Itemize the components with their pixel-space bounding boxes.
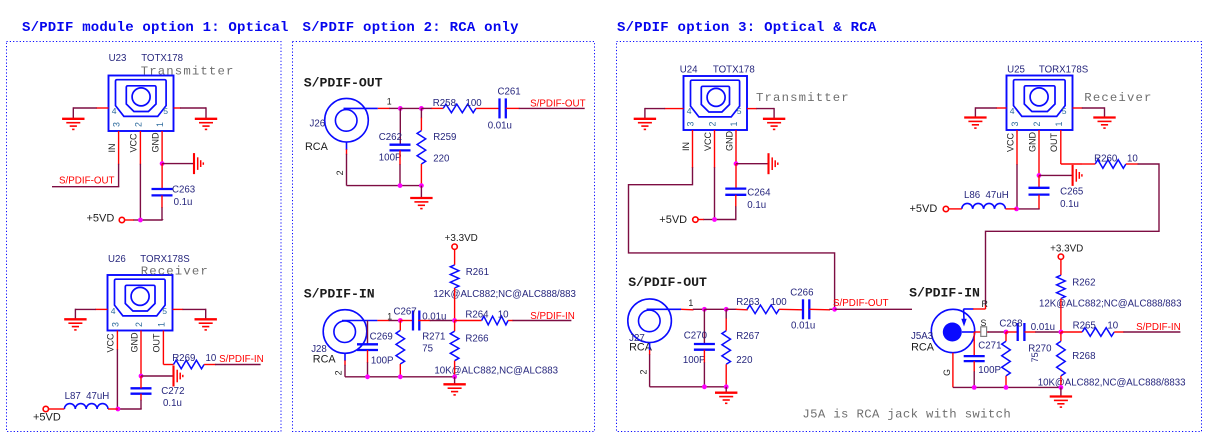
svg-text:+5VD: +5VD <box>910 203 938 215</box>
wire R267 node to R263 <box>726 308 736 310</box>
wire U26 pin5 to right ground <box>173 308 184 310</box>
svg-text:4: 4 <box>687 106 692 116</box>
wire C262 drop <box>399 108 401 144</box>
svg-text:10: 10 <box>206 353 217 364</box>
svg-text:3: 3 <box>112 122 122 127</box>
svg-text:TORX178S: TORX178S <box>140 254 190 265</box>
wire R270 drop <box>1005 332 1007 341</box>
junction R270 node <box>1004 330 1009 335</box>
svg-text:S/PDIF option 3: Optical & RCA: S/PDIF option 3: Optical & RCA <box>617 20 877 36</box>
panel border option 1 <box>7 42 282 432</box>
J28 tip wire <box>342 320 377 322</box>
ground left of U26 <box>64 318 86 320</box>
capacitor C269 <box>357 343 378 345</box>
svg-text:R271: R271 <box>422 332 445 343</box>
J5A G pin wire <box>952 353 954 388</box>
wire +5VD to L86 <box>949 208 962 210</box>
wire C270 to ground rail <box>703 350 705 363</box>
svg-text:Receiver: Receiver <box>141 264 209 278</box>
svg-text:75: 75 <box>1030 352 1040 362</box>
wire R260 long run to J5A R pin <box>1126 163 1138 165</box>
svg-text:RCA: RCA <box>313 354 337 366</box>
wire +3.3VD to R262 <box>1060 259 1062 275</box>
svg-text:5: 5 <box>163 106 168 116</box>
capacitor C261 <box>498 98 500 118</box>
wire U26 VCC pin down <box>116 331 118 351</box>
junction R262 R268 node <box>1059 330 1064 335</box>
junction C270 ground <box>702 384 707 389</box>
wire C269 to ground rail <box>367 350 369 363</box>
svg-text:VCC: VCC <box>106 333 116 353</box>
wire U24 IN pin down and around <box>692 130 694 168</box>
svg-text:TOTX178: TOTX178 <box>713 65 755 76</box>
junction R270 ground <box>1004 385 1009 390</box>
J5A switch arrow <box>963 309 965 320</box>
svg-text:100: 100 <box>771 297 788 308</box>
wire U24 pin4 to left ground <box>664 108 683 110</box>
ground rail panel2 bottom <box>345 376 455 378</box>
svg-text:C262: C262 <box>379 132 402 143</box>
svg-text:1: 1 <box>156 322 166 327</box>
wire R258 to C261 <box>476 107 500 109</box>
svg-text:R: R <box>982 299 988 309</box>
svg-text:U25: U25 <box>1007 65 1025 76</box>
svg-text:0.1u: 0.1u <box>174 197 193 208</box>
wire GND node to chassis U25 <box>1039 174 1073 176</box>
wire C268 to R262 node <box>1024 331 1036 333</box>
wire L86 to junction <box>1005 208 1016 210</box>
ground rail panel3 out <box>650 386 727 388</box>
svg-text:5: 5 <box>162 306 167 316</box>
svg-text:+5VD: +5VD <box>87 213 115 225</box>
svg-text:GND: GND <box>1027 132 1037 153</box>
capacitor C265 <box>1029 187 1050 189</box>
capacitor C266 <box>802 299 804 319</box>
svg-text:4: 4 <box>1010 106 1015 116</box>
svg-text:R264: R264 <box>465 310 489 321</box>
J28 shell wire <box>344 353 346 361</box>
junction U24 GND node <box>734 161 739 166</box>
svg-text:S/PDIF-IN: S/PDIF-IN <box>909 286 980 301</box>
svg-text:TOTX178: TOTX178 <box>141 53 183 64</box>
wire R259 node to R258 <box>421 107 432 109</box>
chassis ground U23 <box>193 153 195 174</box>
wire U24 GND pin down <box>735 130 737 164</box>
svg-text:L86 47uH: L86 47uH <box>964 190 1009 201</box>
svg-text:S/PDIF-OUT: S/PDIF-OUT <box>833 298 889 309</box>
wire +5VD rail U25 <box>1017 208 1040 210</box>
ground panel3 out <box>715 392 737 394</box>
resistor R258 <box>443 104 476 113</box>
wire R266 drop <box>454 321 456 332</box>
junction R266 ground <box>452 374 457 379</box>
J27 shell wire <box>649 343 651 351</box>
junction VCC +5VD panel1 <box>138 218 143 223</box>
wire U24 pin5 to right ground <box>747 108 757 110</box>
svg-text:C267: C267 <box>394 307 417 318</box>
wire U23 pin4 to left ground <box>96 107 109 109</box>
svg-text:C271: C271 <box>978 341 1001 352</box>
wire +5VD rail U24 <box>715 219 737 221</box>
resistor R264 <box>482 316 509 325</box>
svg-text:S/PDIF-OUT: S/PDIF-OUT <box>530 98 586 109</box>
svg-text:5: 5 <box>737 106 742 116</box>
wire C267 to R261 node <box>418 320 430 322</box>
wire R263 to C266 <box>779 308 803 311</box>
chassis ground U24 <box>767 153 769 174</box>
svg-text:R266: R266 <box>465 333 488 344</box>
svg-text:G: G <box>942 369 952 376</box>
svg-text:S/PDIF-IN: S/PDIF-IN <box>304 287 375 302</box>
svg-text:1: 1 <box>1054 122 1064 127</box>
svg-text:C264: C264 <box>747 188 771 199</box>
RCA jack J5A with switch <box>931 309 974 352</box>
+5VD pin U24 <box>693 217 698 222</box>
ground left of U24 <box>634 118 656 120</box>
wire GND node to C265 <box>1038 175 1040 187</box>
svg-text:10: 10 <box>1107 320 1118 331</box>
capacitor C262 <box>390 144 411 146</box>
wire C265 to +5VD rail <box>1038 195 1040 209</box>
wire L87 to junction <box>108 408 118 410</box>
svg-text:OUT: OUT <box>152 333 162 353</box>
wire node to R265 <box>1061 331 1082 333</box>
svg-text:C268: C268 <box>999 318 1022 329</box>
svg-text:GND: GND <box>724 131 734 152</box>
svg-text:S/PDIF-OUT: S/PDIF-OUT <box>304 76 383 91</box>
svg-text:Transmitter: Transmitter <box>756 91 850 105</box>
wire U26 OUT pin down <box>162 331 164 365</box>
svg-text:S/PDIF module option 1: Optica: S/PDIF module option 1: Optical <box>22 20 289 36</box>
resistor R266 <box>450 331 459 361</box>
wire C270 drop <box>703 309 705 344</box>
wire C266 to junction <box>809 308 830 311</box>
svg-text:0.1u: 0.1u <box>747 200 766 211</box>
capacitor C264 <box>725 187 746 189</box>
svg-text:+5VD: +5VD <box>659 214 687 226</box>
junction R259 node <box>419 106 424 111</box>
svg-text:R262: R262 <box>1072 277 1095 288</box>
wire U23 pin5 to right ground <box>174 107 181 109</box>
wire U25 OUT pin down <box>1060 130 1062 164</box>
svg-text:3: 3 <box>110 322 120 327</box>
wire U25 pin5 to right ground <box>1073 107 1083 109</box>
svg-text:+3.3VD: +3.3VD <box>445 233 478 244</box>
svg-text:0.1u: 0.1u <box>1060 199 1079 210</box>
svg-text:C272: C272 <box>161 386 184 397</box>
svg-text:10: 10 <box>1127 153 1138 164</box>
svg-text:2: 2 <box>708 122 718 127</box>
svg-text:5: 5 <box>1062 106 1067 116</box>
wire +5VD to L87 <box>49 408 65 410</box>
ground right of U26 <box>195 318 217 320</box>
inductor L86 <box>962 203 1006 208</box>
junction C270 node <box>702 307 707 312</box>
wire to earth panel2 bottom <box>454 377 456 385</box>
wire GND node to C263 <box>161 164 163 189</box>
svg-text:U23: U23 <box>109 53 127 64</box>
svg-text:R267: R267 <box>736 331 759 342</box>
J26 tip wire <box>344 107 378 109</box>
wire U25 GND pin down <box>1038 130 1040 175</box>
resistor R262 <box>1057 275 1066 298</box>
ground right of U23 <box>195 118 217 120</box>
svg-text:10K@ALC882,NC@ALC883: 10K@ALC882,NC@ALC883 <box>434 366 558 377</box>
J5A tip wire <box>962 331 975 333</box>
svg-text:C261: C261 <box>498 87 521 98</box>
wire node to C267 <box>400 320 413 322</box>
resistor R260 <box>1095 160 1126 169</box>
svg-text:220: 220 <box>736 355 753 366</box>
svg-text:VCC: VCC <box>1005 132 1015 152</box>
wire C264 to +5VD rail <box>735 195 737 207</box>
wire R264 to S/PDIF-IN <box>508 320 513 322</box>
ground right of U25 <box>1093 116 1115 118</box>
junction R267 node <box>724 307 729 312</box>
svg-text:100P: 100P <box>371 356 394 367</box>
wire R266 to ground rail <box>454 361 456 377</box>
wire GND node to chassis ground panel1 bottom <box>141 375 174 377</box>
svg-text:R258: R258 <box>433 98 456 109</box>
svg-text:Transmitter: Transmitter <box>141 65 235 79</box>
svg-text:R269: R269 <box>172 353 195 364</box>
svg-text:10: 10 <box>498 310 509 321</box>
wire R269 to S/PDIF-IN <box>204 364 216 366</box>
svg-text:+5VD: +5VD <box>33 412 61 424</box>
svg-text:R265: R265 <box>1073 320 1096 331</box>
wire C269 drop <box>367 321 369 345</box>
wire to earth panel3 out <box>725 387 727 393</box>
wire S/PDIF-OUT net panel3 <box>835 308 912 310</box>
ground panel3 in <box>1050 395 1072 397</box>
J27 tip wire <box>647 308 681 310</box>
wire GND node to C272 <box>140 376 142 388</box>
svg-text:3: 3 <box>1010 122 1020 127</box>
capacitor C272 <box>131 387 152 389</box>
svg-text:R261: R261 <box>466 267 489 278</box>
svg-text:L87 47uH: L87 47uH <box>65 391 110 402</box>
wire GND node to chassis ground <box>162 163 194 165</box>
resistor R267 <box>722 331 731 365</box>
wire to earth panel3 in <box>1060 387 1062 396</box>
junction S/PDIF-OUT node panel3 <box>832 307 837 312</box>
wire to earth panel2 top <box>420 186 422 198</box>
panel border option 3 <box>617 42 1202 432</box>
J5A switch arm wire <box>963 308 973 310</box>
resistor R261 <box>450 265 459 288</box>
wire R270 to ground rail <box>1005 376 1007 388</box>
svg-text:220: 220 <box>433 153 450 164</box>
svg-text:C263: C263 <box>172 185 195 196</box>
wire R271 to ground rail <box>399 364 401 377</box>
wire C263 to +5VD rail <box>161 195 163 208</box>
svg-text:S/PDIF-IN: S/PDIF-IN <box>530 311 575 322</box>
wire U25 VCC pin down <box>1016 130 1018 165</box>
junction L87 VCC +5VD <box>116 407 121 412</box>
svg-text:0.1u: 0.1u <box>163 398 182 409</box>
wire R268 to ground rail <box>1060 376 1062 388</box>
resistor R265 <box>1082 328 1114 337</box>
resistor R270 <box>1002 341 1011 376</box>
svg-text:1: 1 <box>688 298 693 308</box>
svg-text:OUT: OUT <box>1049 133 1059 153</box>
junction L86 VCC <box>1014 207 1019 212</box>
svg-text:3: 3 <box>686 122 696 127</box>
svg-text:R268: R268 <box>1072 351 1095 362</box>
svg-text:0.01u: 0.01u <box>488 121 512 132</box>
optical receiver U26 <box>108 275 173 331</box>
ground right of U24 <box>763 118 785 120</box>
junction R261 R266 node <box>452 318 457 323</box>
svg-text:Receiver: Receiver <box>1084 91 1152 105</box>
svg-text:+3.3VD: +3.3VD <box>1050 243 1083 254</box>
wire GND node to chassis U24 <box>736 163 769 165</box>
svg-text:2: 2 <box>133 122 143 127</box>
svg-text:1: 1 <box>729 122 739 127</box>
wire R259 to ground rail <box>420 164 422 186</box>
junction R268 ground <box>1059 385 1064 390</box>
ground left of U25 <box>964 116 986 118</box>
svg-text:GND: GND <box>150 132 160 153</box>
svg-text:U24: U24 <box>680 65 698 76</box>
svg-text:100P: 100P <box>379 152 402 163</box>
svg-text:2: 2 <box>1032 122 1042 127</box>
optical receiver U25 <box>1007 76 1073 131</box>
resistor R271 <box>396 330 405 364</box>
svg-text:2: 2 <box>134 322 144 327</box>
junction C271 ground <box>972 385 977 390</box>
svg-text:S/PDIF-IN: S/PDIF-IN <box>219 354 264 365</box>
RCA jack J28 <box>323 310 367 354</box>
svg-text:1: 1 <box>387 311 392 321</box>
svg-text:S/PDIF-OUT: S/PDIF-OUT <box>628 275 707 290</box>
svg-text:S/PDIF-IN: S/PDIF-IN <box>1136 322 1181 333</box>
wire R259 drop <box>420 108 422 118</box>
junction U25 GND node <box>1037 173 1042 178</box>
RCA jack J27 <box>628 299 672 343</box>
svg-text:100P: 100P <box>683 355 706 366</box>
wire GND node to C264 <box>735 164 737 189</box>
wire R271 drop <box>399 321 401 331</box>
svg-text:IN: IN <box>107 144 117 153</box>
svg-text:C270: C270 <box>684 331 708 342</box>
svg-text:TORX178S: TORX178S <box>1039 65 1089 76</box>
J28 pin 1 wire <box>377 320 389 322</box>
svg-text:U26: U26 <box>108 254 126 265</box>
resistor R268 <box>1057 341 1066 376</box>
svg-text:C269: C269 <box>370 332 393 343</box>
ground left of U23 <box>62 118 84 120</box>
svg-text:VCC: VCC <box>703 131 713 151</box>
wire U24 VCC pin down <box>714 130 716 168</box>
wire +3.3VD to R261 <box>454 249 456 265</box>
wire R265 to S/PDIF-IN <box>1114 331 1124 333</box>
wire C261 to S/PDIF-OUT <box>506 107 520 109</box>
wire U23 GND pin down <box>161 131 163 164</box>
svg-text:RCA: RCA <box>305 141 329 153</box>
J26 pin 1 wire <box>378 107 390 109</box>
J5A S pin wire <box>975 331 989 333</box>
svg-text:4: 4 <box>111 306 116 316</box>
svg-text:1: 1 <box>155 122 165 127</box>
svg-text:GND: GND <box>129 332 139 353</box>
capacitor C263 <box>152 188 173 190</box>
svg-text:100: 100 <box>466 98 483 109</box>
svg-text:1: 1 <box>387 97 392 107</box>
capacitor C267 <box>412 311 414 331</box>
wire U23 IN pin down <box>118 131 120 165</box>
ground panel2 top <box>410 197 432 199</box>
junction R259 ground <box>419 183 424 188</box>
wire R267 drop <box>725 309 727 319</box>
wire C271 to ground rail <box>973 361 975 372</box>
resistor R259 <box>417 131 426 164</box>
junction R267 ground <box>724 384 729 389</box>
wire node to R264 <box>455 320 482 322</box>
svg-text:J26: J26 <box>310 118 326 129</box>
+5VD pin panel1 top <box>119 217 124 222</box>
panel border option 2 <box>293 42 595 432</box>
svg-text:4: 4 <box>112 106 117 116</box>
capacitor C268 <box>1017 323 1019 341</box>
capacitor C270 <box>694 343 715 345</box>
svg-text:2: 2 <box>638 370 648 375</box>
wire U26 GND pin down <box>140 331 142 377</box>
chassis ground U26 <box>172 366 174 387</box>
J5A R pin wire <box>985 305 987 309</box>
wire S/PDIF-OUT net panel1 <box>52 186 119 188</box>
svg-text:S/PDIF-OUT: S/PDIF-OUT <box>59 176 115 187</box>
svg-text:VCC: VCC <box>129 133 139 153</box>
resistor R269 <box>174 360 205 369</box>
svg-text:RCA: RCA <box>911 341 935 353</box>
junction C269 ground <box>365 374 370 379</box>
svg-text:100P: 100P <box>978 365 1001 376</box>
J5A switch contact square <box>981 327 987 337</box>
wire U26 pin4 to left ground <box>95 308 107 310</box>
svg-text:R263: R263 <box>736 297 759 308</box>
wire to R259 node <box>400 107 421 109</box>
wire R262 to line <box>1060 299 1062 333</box>
svg-text:J5A is RCA jack with switch: J5A is RCA jack with switch <box>802 407 1011 421</box>
svg-text:0.01u: 0.01u <box>791 321 815 332</box>
+5VD pin U25 <box>943 206 948 211</box>
wire U23 VCC pin down <box>139 131 141 165</box>
svg-text:IN: IN <box>681 142 691 151</box>
svg-text:75: 75 <box>422 344 433 355</box>
svg-text:C266: C266 <box>790 288 813 299</box>
ground panel2 bottom <box>443 383 465 385</box>
wire C271 drop <box>973 332 975 356</box>
wire node to C268 <box>1006 331 1018 333</box>
svg-text:R260: R260 <box>1094 153 1118 164</box>
wire R268 drop <box>1060 332 1062 341</box>
wire C272 to +5VD rail bottom <box>140 394 142 401</box>
resistor R263 <box>747 305 779 314</box>
svg-text:R259: R259 <box>433 132 456 143</box>
J27 pin 1 wire <box>681 308 694 311</box>
optical transmitter U24 <box>684 76 748 130</box>
ground rail panel3 in <box>953 386 1061 388</box>
svg-text:2: 2 <box>334 370 344 375</box>
RCA jack J26 <box>325 98 369 142</box>
junction U26 GND node <box>139 374 144 379</box>
junction U23 GND node <box>160 161 165 166</box>
wire OUT to R260 <box>1082 163 1095 165</box>
J26 shell wire <box>346 142 348 150</box>
optical transmitter U23 <box>109 76 174 132</box>
capacitor C271 <box>964 355 985 357</box>
